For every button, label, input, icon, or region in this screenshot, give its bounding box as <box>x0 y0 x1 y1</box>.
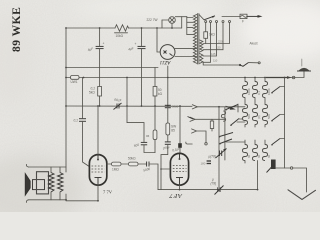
dark trimmer arrow mid <box>219 151 221 157</box>
svg-text:85: 85 <box>171 129 175 133</box>
bottom bus <box>158 189 258 191</box>
svg-text:F: F <box>242 20 244 24</box>
winding vertical rails <box>50 167 52 173</box>
svg-text:1000: 1000 <box>267 88 271 95</box>
coil value labels rotated <box>247 88 271 158</box>
rectifier AZ11 circle <box>160 45 175 60</box>
wire <box>138 163 147 165</box>
svg-text:110: 110 <box>213 58 218 62</box>
coil bottoms to bottom lines <box>244 125 246 128</box>
transformer primary winding chevrons <box>193 15 196 64</box>
band switch contact 3 <box>272 139 280 145</box>
wire box to mid bus <box>99 96 101 106</box>
tube V2 cathode to bottom bus <box>179 185 181 190</box>
switch fork on mid bus <box>192 105 197 109</box>
col C rectifier output branch <box>167 66 169 105</box>
link wire mid <box>237 121 245 123</box>
block capacitor solid <box>178 143 182 148</box>
resistor box SW85 <box>166 123 170 135</box>
svg-text:5kΩ: 5kΩ <box>89 91 95 95</box>
dark cap blob x209 <box>207 160 211 162</box>
secondary top resistor column <box>205 23 207 32</box>
output transformer primary winding <box>49 173 55 193</box>
wire corner down col B <box>154 68 156 87</box>
svg-text:10kΩ: 10kΩ <box>116 34 124 38</box>
col B lower resistor box <box>154 106 156 130</box>
coil column 2 <box>254 78 256 82</box>
heater bottom wire <box>203 62 240 65</box>
series capacitor plates <box>146 162 148 167</box>
tube V2 grids dashed <box>173 166 187 172</box>
capacitor 0,1 AF lower <box>165 141 171 143</box>
tap wires right of secondary <box>203 23 229 44</box>
tube V1 output envelope <box>89 155 106 186</box>
lamp wiring <box>175 16 187 18</box>
resistor box 5k on cap1 line <box>98 87 102 97</box>
transformer core <box>196 14 198 65</box>
tube V1 cathode wire down-left <box>66 185 98 201</box>
wire box to cap <box>167 135 169 142</box>
padder trimmer dark <box>271 160 276 170</box>
capacitor 0,1 grid <box>79 118 86 120</box>
AZ11 leads to transformer <box>175 47 197 49</box>
wire col B to mid bus <box>154 96 156 106</box>
resistor 1M rounded box <box>112 162 122 166</box>
trimmer cap on bottom bus <box>217 187 219 192</box>
svg-text:125: 125 <box>211 52 216 56</box>
wire <box>121 163 129 165</box>
fuse box F <box>240 14 247 18</box>
gramophone switch lever <box>240 63 248 67</box>
switch fork upper <box>190 117 195 121</box>
tube V2 anode stem <box>179 154 181 160</box>
node top left <box>65 27 67 29</box>
wire top bus right segment <box>129 27 182 29</box>
secondary heater winding chevrons <box>200 54 203 64</box>
transformer tap rail <box>186 17 188 35</box>
wire to box <box>167 108 169 123</box>
wire top bus left segment <box>66 27 115 29</box>
wire below cap2 to antenna bus and mid bus <box>141 49 143 106</box>
hooked stub <box>186 142 192 144</box>
node <box>99 27 101 29</box>
svg-text:60: 60 <box>257 154 261 158</box>
master wave arrow dark <box>226 106 232 108</box>
earth ground chevron <box>288 190 316 200</box>
svg-text:0,1: 0,1 <box>257 91 261 95</box>
primary taps <box>187 21 193 23</box>
tube V2 cathode <box>176 177 183 179</box>
antenna bus y77.5 <box>66 77 304 79</box>
AF7 anode feed vertical x180 <box>179 106 181 143</box>
resistor box small x212 <box>210 121 213 129</box>
antenna change-over contact <box>266 77 288 79</box>
output transformer frame <box>37 172 49 194</box>
svg-text:89 WKE: 89 WKE <box>11 7 23 52</box>
wire below cap1 <box>99 49 101 87</box>
svg-text:5000: 5000 <box>172 105 179 109</box>
link wire lower <box>226 141 245 143</box>
coil column 1 <box>244 78 246 82</box>
capacitor 5000 plates on col C <box>165 104 171 106</box>
tube V2 grid stub left <box>161 168 170 170</box>
capacitor 500 coupling <box>141 141 147 143</box>
antenna <box>303 71 305 78</box>
wire padder to ground <box>276 167 291 169</box>
svg-text:kΩ: kΩ <box>158 92 163 96</box>
svg-text:60: 60 <box>247 154 251 158</box>
bottom bus continues to coil return <box>257 189 259 191</box>
stub x238 <box>237 104 239 112</box>
wire vertical filter cap 1 <box>99 28 101 46</box>
coil column 3 <box>264 78 266 82</box>
speaker bottom lead <box>29 199 67 201</box>
selector terminal circles <box>205 21 207 23</box>
svg-text:+: + <box>103 42 105 46</box>
svg-text:1kΩ: 1kΩ <box>209 33 215 37</box>
svg-text:(78): (78) <box>211 182 217 186</box>
output transformer secondary winding <box>58 173 64 193</box>
svg-text:500: 500 <box>247 114 251 119</box>
svg-text:220: 220 <box>218 40 223 44</box>
svg-text:50kΩ: 50kΩ <box>128 157 136 161</box>
wire left main vertical <box>65 28 67 167</box>
svg-text:86: 86 <box>239 117 243 121</box>
svg-text:06: 06 <box>146 134 150 138</box>
coupling bridge col x127 <box>126 78 128 107</box>
svg-text:1MΩ: 1MΩ <box>112 168 119 172</box>
node <box>141 27 143 29</box>
capacitor C 4uF no.1 <box>96 45 104 47</box>
mid bus y106 <box>66 105 192 107</box>
svg-text:180: 180 <box>201 162 206 166</box>
wire vertical filter cap 2 <box>141 28 143 46</box>
svg-text:0,1: 0,1 <box>74 119 79 123</box>
speaker right vertical links <box>65 167 67 172</box>
svg-text:UW1: UW1 <box>71 80 78 84</box>
mains arrow <box>247 15 259 17</box>
wire grid cap down to tube1 <box>83 121 90 166</box>
tube V1 grids dashed <box>92 166 105 172</box>
wire cap to cathode rail <box>161 144 168 189</box>
capacitor C 4uF no.2 <box>138 45 146 47</box>
svg-text:222 7W: 222 7W <box>147 18 158 22</box>
trimmer arrow <box>114 103 122 110</box>
wire screen branch y67 <box>66 67 158 69</box>
svg-text:μ: μ <box>211 178 214 182</box>
tube V1 top feed <box>97 106 99 155</box>
svg-text:150: 150 <box>216 46 221 50</box>
grid chain from tube V1 right <box>107 163 112 165</box>
coil small x223 <box>221 111 225 121</box>
resistor box 1k <box>204 32 208 39</box>
svg-text:7 7V: 7 7V <box>103 190 113 195</box>
svg-text:+: + <box>135 42 137 46</box>
speaker top lead <box>29 166 67 168</box>
tube V2 AF7 envelope <box>170 153 188 185</box>
tube V1 anode stem <box>97 155 99 160</box>
resistor underline <box>115 32 128 34</box>
band lever arrows cluster <box>226 105 238 110</box>
right main vertical <box>284 78 286 169</box>
speaker cone <box>25 174 30 196</box>
svg-text:60: 60 <box>267 154 271 158</box>
resistor R zigzag 10k <box>115 25 129 31</box>
svg-text:AF7: AF7 <box>169 192 183 199</box>
pilot lamp <box>169 17 176 24</box>
svg-text:500: 500 <box>267 114 271 119</box>
svg-text:(0): (0) <box>257 115 261 119</box>
tube V1 cathode <box>95 177 102 179</box>
svg-text:AZ11: AZ11 <box>159 59 171 65</box>
wire cap to grid join <box>144 145 155 153</box>
svg-text:μ(78): μ(78) <box>208 155 216 159</box>
svg-text:1000: 1000 <box>247 88 251 95</box>
trimmer arrow <box>215 186 224 195</box>
vertical x219 to bottom trimmer <box>218 107 220 187</box>
vertical x225 <box>224 108 226 161</box>
speaker coil box <box>33 180 45 190</box>
wire corner to rectifier <box>157 28 160 52</box>
resistor 50k rounded box <box>129 162 139 166</box>
grid cap vertical x82.5 <box>82 78 84 118</box>
wire to corner <box>149 164 158 190</box>
resistor UW1 rounded <box>71 76 80 80</box>
wire lever to fuse <box>222 16 240 18</box>
AZ11 anodes <box>164 51 167 54</box>
switch fork lower <box>192 129 197 133</box>
resistor box 50k col B <box>153 87 157 97</box>
wire block cap to tube2 top <box>179 148 181 154</box>
selector lever arrow <box>204 16 215 20</box>
band switch contact 1 <box>272 87 280 93</box>
node after UW1 <box>83 77 85 79</box>
band switch contact 2 <box>272 115 280 121</box>
svg-text:Akust: Akust <box>250 42 258 46</box>
secondary HV winding chevrons <box>200 40 203 52</box>
